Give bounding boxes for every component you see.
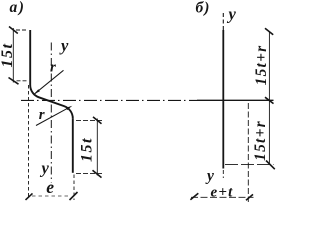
arrowhead of lower r leader	[66, 106, 72, 110]
leader for radius r upper	[35, 70, 64, 93]
axis line of figure b: lower dashed continuation	[222, 170, 224, 178]
dimension 15t right: tick bottom	[93, 170, 102, 177]
svg-text:y: y	[205, 168, 214, 185]
svg-text:б): б)	[196, 0, 211, 17]
extension line offset axis (fig b)	[247, 103, 249, 202]
svg-text:а): а)	[10, 0, 26, 16]
dimension 15t right: dimension line	[96, 119, 98, 176]
dimension 15t+r lower: value label	[252, 120, 269, 161]
arrowhead of upper r leader	[34, 89, 40, 94]
dimension e+t: value label	[211, 184, 234, 200]
svg-text:15t+r: 15t+r	[253, 45, 270, 86]
dimension 15t right: value label	[79, 137, 96, 162]
dimension 15t+r upper: dimension line	[268, 32, 270, 101]
dimension 15t right: extension line top	[76, 119, 103, 121]
dimension 15t+r lower: dimension line	[268, 100, 270, 164]
svg-text:15t: 15t	[0, 43, 16, 68]
dimension e: tick left	[26, 193, 33, 200]
horizontal line of figure b (solid)	[197, 99, 274, 101]
node y label top (fig b)	[227, 5, 237, 24]
svg-text:e: e	[46, 177, 54, 197]
dimension e: value label	[46, 177, 54, 197]
axis line of figure b: main solid segment	[222, 30, 224, 169]
node y label bottom left of e+t (fig b)	[205, 168, 214, 185]
wire: lower flange line (fig a)	[72, 118, 74, 172]
axis y-y of figure a (dash-dot)	[50, 43, 52, 183]
dimension 15t+r lower: extension line bottom	[225, 164, 274, 166]
dimension 15t left: tick top	[9, 27, 18, 34]
dimension 15t+r upper: tick top	[265, 28, 273, 35]
dimension e+t: tick right	[246, 194, 253, 200]
leader for radius r lower	[36, 108, 68, 126]
svg-text:r: r	[50, 59, 56, 75]
dimension 15t left: extension line top	[16, 29, 28, 31]
wire: upper flange line (fig a)	[29, 30, 31, 85]
svg-text:y: y	[40, 159, 50, 178]
dimension 15t left: value label	[0, 43, 16, 68]
svg-text:15t+r: 15t+r	[252, 120, 269, 161]
dimension 15t left: extension line bottom	[17, 80, 29, 82]
svg-text:r: r	[39, 107, 45, 123]
extension line from lower flange down (fig a)	[73, 175, 75, 201]
dimension e: tick right	[70, 192, 78, 200]
svg-text:15t: 15t	[79, 137, 96, 162]
dimension 15t left: dimension line	[12, 28, 14, 83]
dimension e+t: dimension line	[191, 196, 254, 198]
svg-text:y: y	[227, 5, 237, 24]
horizontal centerline (dash-dot)	[21, 99, 197, 101]
value label r upper	[50, 59, 56, 75]
dimension 15t+r lower: tick bottom	[266, 161, 275, 170]
svg-text:y: y	[59, 36, 69, 55]
value label r lower	[39, 107, 45, 123]
dimension 15t+r shared tick at centerline	[265, 97, 274, 103]
dimension 15t right: extension line bottom	[76, 173, 103, 175]
node y label bottom (fig a)	[40, 159, 50, 178]
dimension 15t left: tick bottom	[9, 78, 19, 85]
wire: S-bend curve (fig a)	[30, 85, 73, 118]
dimension e: dimension line	[32, 195, 68, 197]
node y label top (fig a)	[59, 36, 69, 55]
dimension 15t+r upper: value label	[253, 45, 270, 86]
axis line of figure b: dashed top segment	[222, 13, 224, 30]
extension line from upper flange down (fig a)	[28, 85, 30, 199]
dimension e+t: tick left	[190, 193, 198, 200]
dimension 15t right: tick top	[93, 117, 102, 124]
label а)	[10, 0, 26, 16]
label б)	[196, 0, 211, 17]
svg-text:e+t: e+t	[211, 184, 234, 200]
